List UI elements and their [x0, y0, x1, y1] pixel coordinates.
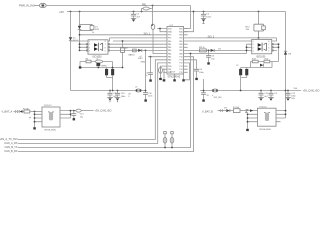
- svg-text:TP: TP: [29, 118, 32, 120]
- svg-text:P15: P15: [179, 72, 182, 74]
- IC3 left dots: [79, 43, 81, 51]
- svg-text:1: 1: [89, 41, 90, 43]
- cap below rail x110: [107, 91, 113, 103]
- svg-text:8: 8: [268, 41, 269, 43]
- svg-text:1k: 1k: [92, 32, 94, 34]
- capacitor C1: [131, 12, 136, 19]
- svg-text:PA0: PA0: [168, 40, 171, 43]
- svg-text:PB5: PB5: [179, 41, 182, 43]
- IC4 right dots: [70, 110, 75, 116]
- IC3 optocoupler box: [88, 40, 108, 54]
- svg-text:5V0: 5V0: [294, 88, 299, 90]
- svg-text:4u7: 4u7: [264, 96, 268, 98]
- svg-text:CAN_B_TX: CAN_B_TX: [5, 146, 18, 149]
- chevron in: [15, 110, 18, 112]
- IC5 right dots: [278, 43, 280, 48]
- svg-text:5: 5: [105, 50, 106, 52]
- svg-text:D8: D8: [288, 54, 292, 56]
- svg-text:VDD: VDD: [168, 28, 172, 30]
- drop x203 cap to pad: [201, 79, 206, 102]
- diode D3 on rail: [69, 37, 72, 40]
- tick net z: [246, 110, 248, 113]
- svg-text:2: 2: [89, 44, 90, 46]
- svg-text:PB4: PB4: [179, 38, 182, 40]
- svg-text:R1SE-0505: R1SE-0505: [260, 129, 272, 131]
- rail dots: [109, 90, 289, 92]
- svg-text:DCDC1: DCDC1: [44, 105, 52, 107]
- svg-text:+5V_CAN_ISO: +5V_CAN_ISO: [303, 90, 320, 93]
- svg-text:PF1: PF1: [168, 38, 171, 40]
- svg-text:F3 1A: F3 1A: [233, 106, 239, 109]
- svg-text:C10: C10: [121, 93, 126, 95]
- rail x70 left: [70, 12, 72, 91]
- svg-text:V_BAT_B: V_BAT_B: [202, 110, 213, 113]
- chevron right chain: [220, 110, 223, 112]
- svg-text:5V8: 5V8: [95, 29, 100, 31]
- bead FB2: [76, 109, 94, 112]
- crystal pair left: [105, 68, 114, 91]
- drop fuse oval x160.5: [159, 66, 164, 80]
- svg-text:100n: 100n: [206, 16, 212, 18]
- svg-text:Y2: Y2: [236, 65, 239, 67]
- IC6 right dots: [285, 110, 287, 116]
- IC6 left dots: [247, 113, 249, 122]
- cap below rail x262: [258, 91, 264, 101]
- IC5 pin texts: [253, 41, 270, 52]
- wire rail A: [46, 6, 190, 29]
- svg-text:C1: C1: [137, 14, 141, 16]
- svg-text:P12: P12: [179, 63, 182, 65]
- dot tie: [159, 28, 161, 30]
- fuse F2: [23, 110, 42, 113]
- svg-text:C6: C6: [199, 69, 203, 71]
- snubber loop R2 left: [78, 12, 94, 51]
- IC5 right pin wires: [272, 38, 279, 62]
- arrow into IC6: [249, 109, 255, 112]
- svg-text:C8: C8: [211, 56, 215, 58]
- svg-text:3: 3: [89, 47, 90, 49]
- svg-text:PA2: PA2: [168, 46, 171, 49]
- svg-text:VDA: VDA: [179, 31, 183, 34]
- svg-text:BAT54: BAT54: [129, 54, 136, 57]
- svg-text:1: 1: [253, 41, 254, 43]
- svg-text:8MHz: 8MHz: [102, 65, 107, 67]
- inductor L1: [142, 6, 153, 12]
- svg-text:16V: 16V: [291, 98, 295, 100]
- drop pad x164: [163, 69, 166, 81]
- svg-text:CAN_A_RX: CAN_A_RX: [4, 142, 18, 145]
- lower cluster left: [79, 60, 123, 69]
- svg-text:P14: P14: [179, 69, 182, 71]
- svg-text:3V: 3V: [206, 95, 209, 97]
- pullup R5 column: [121, 41, 125, 68]
- wire VIN stub: [34, 5, 39, 7]
- MCU pin name texts: [168, 28, 183, 74]
- svg-text:7: 7: [268, 44, 269, 46]
- svg-text:10u: 10u: [80, 116, 84, 118]
- svg-text:R9 1k: R9 1k: [199, 47, 206, 49]
- IC6 dcdc box: [257, 108, 276, 126]
- svg-text:P11: P11: [180, 60, 183, 62]
- junction dots rail A/B: [70, 5, 260, 13]
- svg-text:+5V_CAN_ISO: +5V_CAN_ISO: [95, 110, 112, 113]
- crystal pair right: [239, 68, 248, 91]
- svg-text:PA7: PA7: [168, 62, 171, 65]
- svg-text:CAN_A_TX_3V3: CAN_A_TX_3V3: [0, 138, 18, 141]
- svg-text:V_BAT_A: V_BAT_A: [2, 111, 13, 114]
- MCU left pin tie top: [157, 29, 163, 32]
- dot R5 top: [122, 40, 124, 42]
- svg-text:CAN_B_RX: CAN_B_RX: [4, 150, 18, 153]
- svg-text:FB1: FB1: [142, 3, 147, 6]
- bead FB3 on left rail: [136, 89, 142, 92]
- svg-text:PB3: PB3: [179, 35, 182, 37]
- svg-text:7: 7: [105, 44, 106, 46]
- flag fuse x172: [170, 132, 174, 148]
- cap below rail x117.5: [115, 91, 121, 103]
- svg-text:PA6: PA6: [168, 59, 171, 62]
- IC4 right pins: [60, 111, 76, 118]
- dot x190: [190, 37, 260, 54]
- cap below rail x288: [285, 91, 291, 101]
- svg-text:PA1: PA1: [168, 43, 171, 46]
- testpoint J1 circle: [151, 6, 163, 54]
- fuse F3: [230, 109, 248, 113]
- drop cap C5 x150: [148, 57, 153, 82]
- wire B to MCU pin2: [184, 12, 194, 32]
- svg-text:6: 6: [268, 47, 269, 49]
- flag fuse x165: [163, 132, 167, 148]
- IC6 right pins: [276, 111, 286, 122]
- svg-text:PB0: PB0: [168, 66, 171, 68]
- svg-text:PB1: PB1: [168, 69, 171, 71]
- svg-text:100n: 100n: [121, 96, 126, 98]
- svg-text:SWC: SWC: [138, 58, 143, 60]
- svg-text:3: 3: [253, 47, 254, 49]
- svg-text:3V3_1: 3V3_1: [144, 33, 151, 35]
- svg-text:4u7: 4u7: [137, 16, 141, 18]
- dot row56: [145, 50, 152, 58]
- drop x145 cap to pad: [143, 50, 148, 101]
- svg-text:10n: 10n: [211, 58, 215, 60]
- svg-text:VBA: VBA: [168, 31, 172, 34]
- dot C8: [208, 50, 210, 52]
- svg-text:R1SE-0505: R1SE-0505: [45, 130, 57, 132]
- wire band rows left: [108, 41, 163, 57]
- svg-text:C2: C2: [206, 14, 210, 16]
- svg-text:R7: R7: [125, 48, 128, 50]
- dots lower cluster left: [97, 67, 123, 69]
- svg-text:DCDC2: DCDC2: [260, 107, 268, 109]
- svg-text:PA3: PA3: [168, 49, 171, 52]
- diode D10: [14, 110, 23, 113]
- svg-text:5: 5: [268, 50, 269, 52]
- IC6 left pins: [246, 111, 258, 132]
- svg-text:4: 4: [89, 50, 90, 52]
- IC3 left pin wires: [71, 41, 89, 50]
- svg-text:100n: 100n: [199, 72, 204, 74]
- ground C2: [201, 19, 206, 24]
- svg-text:3V3_ISO: 3V3_ISO: [214, 97, 223, 99]
- IC5 left pin wires and bus: [247, 41, 252, 54]
- svg-text:PB8: PB8: [179, 50, 182, 52]
- svg-text:6: 6: [105, 47, 106, 49]
- svg-text:PF0: PF0: [168, 35, 171, 37]
- fuse F1: [39, 3, 46, 7]
- IC3 pin texts: [89, 41, 106, 52]
- cap C13 x76: [71, 111, 76, 121]
- rail 5V right segment y90: [200, 90, 301, 92]
- drop cap C6 x196: [188, 60, 199, 80]
- IC5 optocoupler box: [252, 39, 272, 53]
- svg-text:PB2: PB2: [168, 72, 171, 74]
- svg-text:3V3_2: 3V3_2: [208, 36, 215, 38]
- ground C1: [131, 19, 136, 22]
- svg-text:8: 8: [105, 41, 106, 43]
- MCU IC2 box: [167, 27, 184, 75]
- staircase wire row 62.9: [185, 63, 190, 80]
- diode D8 on rail x285: [284, 51, 287, 54]
- capacitor C2: [201, 12, 206, 19]
- svg-text:2: 2: [253, 44, 254, 46]
- long drop right pair: [18, 54, 194, 152]
- lower cluster right: [241, 60, 279, 67]
- cap below rail x272: [268, 91, 274, 101]
- wire row 34.8 from bus: [80, 34, 164, 36]
- svg-text:PA5: PA5: [168, 56, 171, 59]
- svg-text:4: 4: [253, 50, 254, 52]
- svg-text:SWD: SWD: [141, 61, 146, 63]
- IC4 bus dots: [34, 113, 36, 122]
- dot x34: [34, 111, 36, 113]
- svg-text:10k: 10k: [246, 29, 250, 31]
- svg-text:PA4: PA4: [168, 52, 171, 55]
- long drop left pair: [18, 60, 163, 144]
- svg-text:D9: D9: [224, 107, 228, 109]
- dot row34.8 bus: [79, 34, 81, 36]
- wire MCU right band rows: [188, 38, 277, 54]
- svg-text:P13: P13: [179, 66, 182, 68]
- svg-text:F2 1A: F2 1A: [23, 107, 29, 110]
- IC4 left pins: [33, 112, 42, 130]
- wire IC3 pin8 up to MCU: [108, 38, 163, 41]
- IC3 pin bubbles: [86, 43, 109, 51]
- svg-text:PWR_IN_5V0: PWR_IN_5V0: [19, 5, 35, 8]
- resistor box row50: [133, 49, 137, 52]
- IC4 dcdc box: [42, 107, 60, 127]
- svg-text:3: 3: [128, 96, 130, 98]
- svg-text:VSS: VSS: [179, 28, 183, 30]
- svg-text:100n: 100n: [148, 96, 152, 98]
- diode cluster on row 50.4: [138, 49, 142, 52]
- svg-text:+5V: +5V: [59, 10, 64, 14]
- IC5 pin bubbles: [272, 43, 274, 51]
- rail 5V left segment y90: [71, 90, 146, 92]
- MCU bottom pins: [173, 74, 185, 82]
- svg-text:L3: L3: [135, 87, 138, 89]
- svg-text:C13: C13: [80, 114, 85, 116]
- IC5 bus dots: [246, 46, 248, 51]
- snubber loop right x258: [254, 12, 265, 38]
- svg-text:PB7: PB7: [179, 47, 182, 49]
- bead FB4 on right rail: [212, 89, 218, 92]
- MCU pin stubs right: [184, 29, 188, 73]
- resistor R9 on row 50.4 right: [200, 49, 215, 52]
- svg-text:PB6: PB6: [179, 44, 182, 46]
- svg-text:C11: C11: [264, 93, 269, 95]
- drop cap C8 x208: [206, 50, 211, 64]
- svg-text:PA9: PA9: [179, 52, 182, 55]
- MCU pin stubs left: [163, 29, 167, 73]
- bottom dots: [164, 147, 173, 149]
- svg-text:C4: C4: [274, 93, 278, 95]
- svg-text:P10: P10: [179, 57, 182, 59]
- wire rail B: [67, 12, 286, 119]
- diode D9: [218, 109, 230, 112]
